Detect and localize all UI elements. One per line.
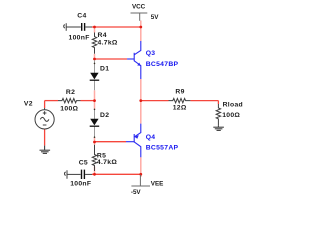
svg-text:V2: V2	[24, 101, 33, 108]
wire	[94, 167, 96, 175]
diode D1	[94, 60, 96, 73]
wire	[190, 100, 218, 102]
wire	[141, 100, 169, 102]
svg-text:D1: D1	[100, 66, 109, 73]
ground (Rload)	[213, 126, 224, 130]
svg-text:R2: R2	[66, 89, 75, 96]
wire	[95, 141, 127, 143]
node junction VCC-rail	[139, 26, 142, 29]
wire	[94, 143, 96, 145]
Q3 emitter arrow	[137, 63, 141, 66]
resistor R9	[169, 98, 191, 102]
node junction C4-R4-rail	[93, 26, 96, 29]
svg-text:D2: D2	[100, 112, 109, 119]
node junction VEE-rail	[139, 173, 142, 176]
svg-text:100Ω: 100Ω	[60, 106, 78, 113]
wire	[140, 157, 142, 177]
transistor Q4 (PNP)	[126, 124, 141, 158]
svg-text:BC557AP: BC557AP	[146, 144, 179, 151]
diode D2	[94, 109, 96, 119]
svg-text:100nF: 100nF	[70, 180, 91, 187]
wire	[140, 79, 142, 101]
resistor R2	[58, 98, 81, 102]
transistor Q3 (NPN)	[127, 41, 141, 79]
VCC power symbol	[131, 13, 148, 21]
svg-text:4.7kΩ: 4.7kΩ	[97, 159, 117, 166]
node junction D2-R5-Q4base	[93, 141, 96, 144]
wire	[217, 101, 219, 104]
svg-text:-5V: -5V	[131, 189, 141, 196]
wire	[94, 28, 96, 33]
svg-text:100nF: 100nF	[69, 34, 90, 41]
capacitor C5	[64, 170, 92, 178]
svg-text:R9: R9	[175, 88, 184, 95]
wire	[44, 101, 46, 108]
svg-text:R4: R4	[98, 32, 107, 39]
wire	[140, 21, 142, 28]
wire	[140, 101, 142, 124]
node junction D1-D2-R2	[93, 99, 96, 102]
wire	[94, 54, 96, 58]
svg-text:Q3: Q3	[146, 50, 156, 57]
VEE power symbol	[131, 175, 150, 186]
node junction emitters-R9	[139, 99, 142, 102]
svg-text:VEE: VEE	[151, 180, 163, 187]
wire	[140, 27, 142, 41]
wire	[44, 129, 46, 145]
svg-text:100Ω: 100Ω	[222, 112, 240, 119]
svg-text:Q4: Q4	[146, 134, 156, 141]
wire	[45, 100, 58, 102]
resistor Rload	[216, 104, 220, 126]
wire	[92, 26, 141, 28]
wire	[95, 58, 128, 60]
svg-text:VCC: VCC	[132, 4, 146, 11]
ground (V2)	[40, 146, 51, 154]
wire	[92, 173, 141, 175]
Q4 emitter arrow	[134, 135, 139, 139]
AC source V2	[35, 108, 54, 129]
wire	[81, 100, 95, 102]
node junction R4-D1-Q3base	[93, 58, 96, 61]
wire	[94, 138, 96, 142]
resistor R5	[92, 145, 96, 171]
capacitor C4	[64, 23, 92, 31]
svg-text:BC547BP: BC547BP	[146, 61, 179, 68]
svg-text:4.7kΩ: 4.7kΩ	[98, 39, 118, 46]
svg-text:C5: C5	[79, 160, 88, 167]
svg-text:C4: C4	[77, 13, 86, 20]
svg-text:Rload: Rload	[223, 102, 243, 109]
svg-text:12Ω: 12Ω	[173, 104, 187, 111]
wire	[94, 90, 96, 99]
resistor R4	[92, 33, 96, 54]
node junction C5-R5-rail	[93, 173, 96, 176]
svg-text:5V: 5V	[151, 14, 159, 21]
